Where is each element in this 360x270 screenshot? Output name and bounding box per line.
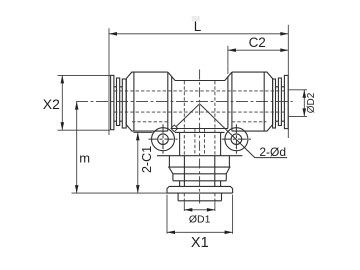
dim 2-C1 ext top	[134, 131, 153, 133]
dimensions	[58, 25, 308, 234]
arrow 2-C1 top	[136, 132, 140, 140]
hidden tab line right	[232, 121, 267, 123]
dim L ext right	[287, 25, 289, 138]
dim C2 line	[228, 49, 288, 51]
leg flange	[167, 186, 233, 193]
dim D2 ext top	[289, 89, 307, 91]
hole left inner	[158, 134, 169, 145]
dim C2 ext left	[227, 46, 229, 74]
right neck 2	[276, 87, 279, 121]
left barrel outline	[126, 72, 168, 131]
arrow X2 top	[61, 75, 65, 83]
svg-text:2-Ød: 2-Ød	[259, 145, 286, 159]
bore top	[114, 90, 286, 92]
leg release tip	[178, 193, 221, 201]
tube line right	[263, 72, 265, 131]
right ring B	[278, 78, 281, 126]
body boss lower line	[175, 131, 225, 133]
hidden bore lines	[114, 81, 286, 201]
leg neck walls	[180, 132, 221, 155]
dim D1 line	[184, 209, 215, 211]
left neck 1	[114, 87, 117, 121]
horizontal centerline	[76, 101, 293, 103]
watermark square	[192, 16, 200, 21]
leg drum walls	[169, 156, 229, 167]
arrow X1 right	[225, 231, 233, 235]
leg bore right	[214, 81, 216, 201]
dim D2 ext bottom	[289, 115, 307, 117]
arrow D1 left	[184, 208, 192, 212]
body inner edge right	[227, 76, 229, 128]
vertical centerline	[199, 70, 201, 204]
body top chamfer left	[168, 72, 232, 80]
svg-text:ØD1: ØD1	[189, 213, 211, 225]
leader 2-phid	[176, 104, 287, 158]
dim X1 line	[167, 231, 233, 233]
svg-text:2-C1: 2-C1	[140, 146, 154, 173]
leg inner bore right	[204, 129, 206, 156]
body boss upper line	[172, 128, 228, 130]
arrow D1 right	[207, 208, 215, 212]
tube line left	[133, 72, 135, 131]
arrow 2-C1 bottom	[136, 185, 140, 193]
svg-text:m: m	[79, 151, 90, 166]
dim m line	[76, 102, 78, 194]
hole right inner	[231, 134, 242, 145]
dim L ext left	[108, 28, 110, 135]
arrow C2 right	[280, 48, 288, 52]
hole left outer	[152, 128, 175, 151]
dim D2 line	[303, 90, 305, 117]
left hole crosshair h	[149, 138, 178, 140]
arrow X1 left	[167, 231, 175, 235]
hidden tab line left	[132, 121, 168, 123]
bore bottom	[114, 111, 286, 113]
dim X1 ext left	[166, 195, 168, 234]
dim X2 ext bottom	[58, 129, 111, 131]
arrow m bottom	[75, 185, 79, 193]
right barrel outline	[232, 72, 273, 131]
svg-text:X1: X1	[191, 235, 209, 251]
dim L line	[109, 33, 288, 35]
arrow D2 bottom	[303, 108, 307, 116]
arrow L right	[280, 32, 288, 36]
arrow m top	[75, 102, 79, 110]
hole right outer	[225, 128, 248, 151]
right ring C	[273, 79, 276, 128]
leader diamond	[171, 125, 178, 132]
right neck 1	[281, 87, 284, 121]
dim 2-C1 line	[137, 132, 139, 193]
dim X2 line	[61, 75, 63, 130]
svg-text:ØD2: ØD2	[306, 92, 317, 113]
dim X1 ext right	[232, 195, 234, 234]
leg inner bore left	[194, 129, 196, 156]
dim X2 ext top	[58, 74, 111, 76]
right hole crosshair v	[235, 124, 237, 154]
arrow D2 top	[303, 90, 307, 98]
svg-text:L: L	[194, 19, 202, 34]
leg internal steps	[184, 156, 214, 187]
left neck 2	[120, 87, 123, 121]
centerlines	[76, 70, 293, 204]
left release ring A	[111, 75, 114, 129]
dim D1 ext right	[214, 202, 216, 212]
dim D1 ext left	[183, 202, 185, 212]
leg ring	[173, 174, 226, 181]
leg neck 2	[180, 181, 221, 187]
body inner edge left	[171, 76, 173, 128]
arrow C2 left	[228, 48, 236, 52]
dim m ext bottom	[72, 192, 168, 194]
arrowheads	[61, 32, 307, 234]
left ring B	[117, 78, 120, 126]
leg bore left	[183, 81, 185, 201]
left ring C	[122, 79, 126, 128]
leg drum lower lip	[168, 166, 230, 168]
arrow X2 bottom	[61, 122, 65, 130]
leg drum top lip	[157, 155, 242, 157]
left hole crosshair v	[162, 124, 164, 154]
right hole crosshair h	[222, 138, 251, 140]
arrow L left	[109, 32, 117, 36]
leg drum taper	[169, 167, 230, 174]
svg-text:C2: C2	[249, 35, 266, 50]
right release ring A	[284, 75, 288, 128]
svg-text:X2: X2	[43, 96, 60, 112]
